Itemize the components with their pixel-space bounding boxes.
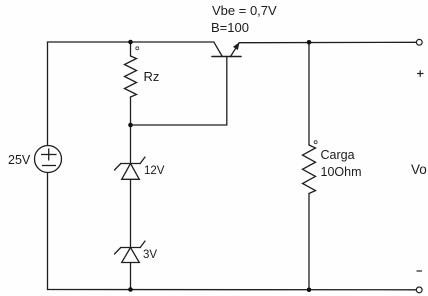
svg-text:10Ohm: 10Ohm bbox=[321, 165, 362, 179]
label plus terminal bbox=[417, 70, 424, 77]
svg-text:Rz: Rz bbox=[144, 69, 160, 84]
transistor Q1 body bbox=[212, 42, 241, 56]
wire left branch lower (source to bottom rail) bbox=[47, 173, 49, 290]
junction node: zener bottom bbox=[128, 287, 133, 292]
junction node: base node bbox=[128, 123, 133, 128]
svg-text:B=100: B=100 bbox=[211, 20, 249, 35]
svg-text:Carga: Carga bbox=[321, 148, 355, 162]
svg-text:12V: 12V bbox=[144, 165, 165, 177]
terminal output + bbox=[416, 39, 422, 45]
wire Rz bottom lead to base node bbox=[130, 97, 132, 125]
wire load branch upper bbox=[308, 42, 310, 145]
wire Rz top lead bbox=[130, 42, 132, 56]
svg-text:Vbe = 0,7V: Vbe = 0,7V bbox=[212, 3, 277, 18]
wire zener branch lower bbox=[130, 263, 132, 290]
wire load branch lower bbox=[308, 194, 310, 290]
wire left branch upper (source to top rail) bbox=[47, 42, 49, 146]
svg-text:Vo: Vo bbox=[411, 162, 427, 177]
svg-text:25V: 25V bbox=[8, 153, 31, 167]
junction node: load top bbox=[307, 40, 312, 45]
resistor Carga 10Ohm bbox=[303, 145, 316, 194]
voltage source V1 25V bbox=[35, 146, 62, 173]
zener diode 3V bbox=[115, 241, 146, 263]
terminal output - bbox=[416, 287, 422, 293]
transistor emitter arrow bbox=[234, 43, 239, 49]
pin marker Rz bbox=[136, 47, 139, 50]
wire bottom rail bbox=[48, 289, 417, 291]
junction node: Rz top bbox=[128, 40, 133, 45]
junction node: load bottom bbox=[307, 288, 312, 293]
zener diode 12V bbox=[115, 157, 146, 179]
wire top rail left of transistor bbox=[48, 41, 215, 43]
wire top rail right of transistor bbox=[239, 41, 416, 43]
wire between zeners bbox=[130, 179, 132, 247]
svg-text:3V: 3V bbox=[143, 249, 157, 261]
pin marker Carga bbox=[314, 141, 317, 144]
wire base node to transistor base bbox=[131, 57, 227, 126]
resistor Rz bbox=[125, 56, 137, 97]
wire zener branch upper bbox=[130, 125, 132, 164]
label minus terminal bbox=[417, 270, 423, 272]
